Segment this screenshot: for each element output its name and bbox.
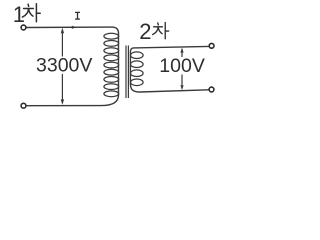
svg-text:100V: 100V [159, 55, 205, 77]
svg-text:2: 2 [139, 19, 151, 44]
svg-text:1: 1 [13, 2, 25, 27]
svg-text:3300V: 3300V [36, 54, 92, 76]
